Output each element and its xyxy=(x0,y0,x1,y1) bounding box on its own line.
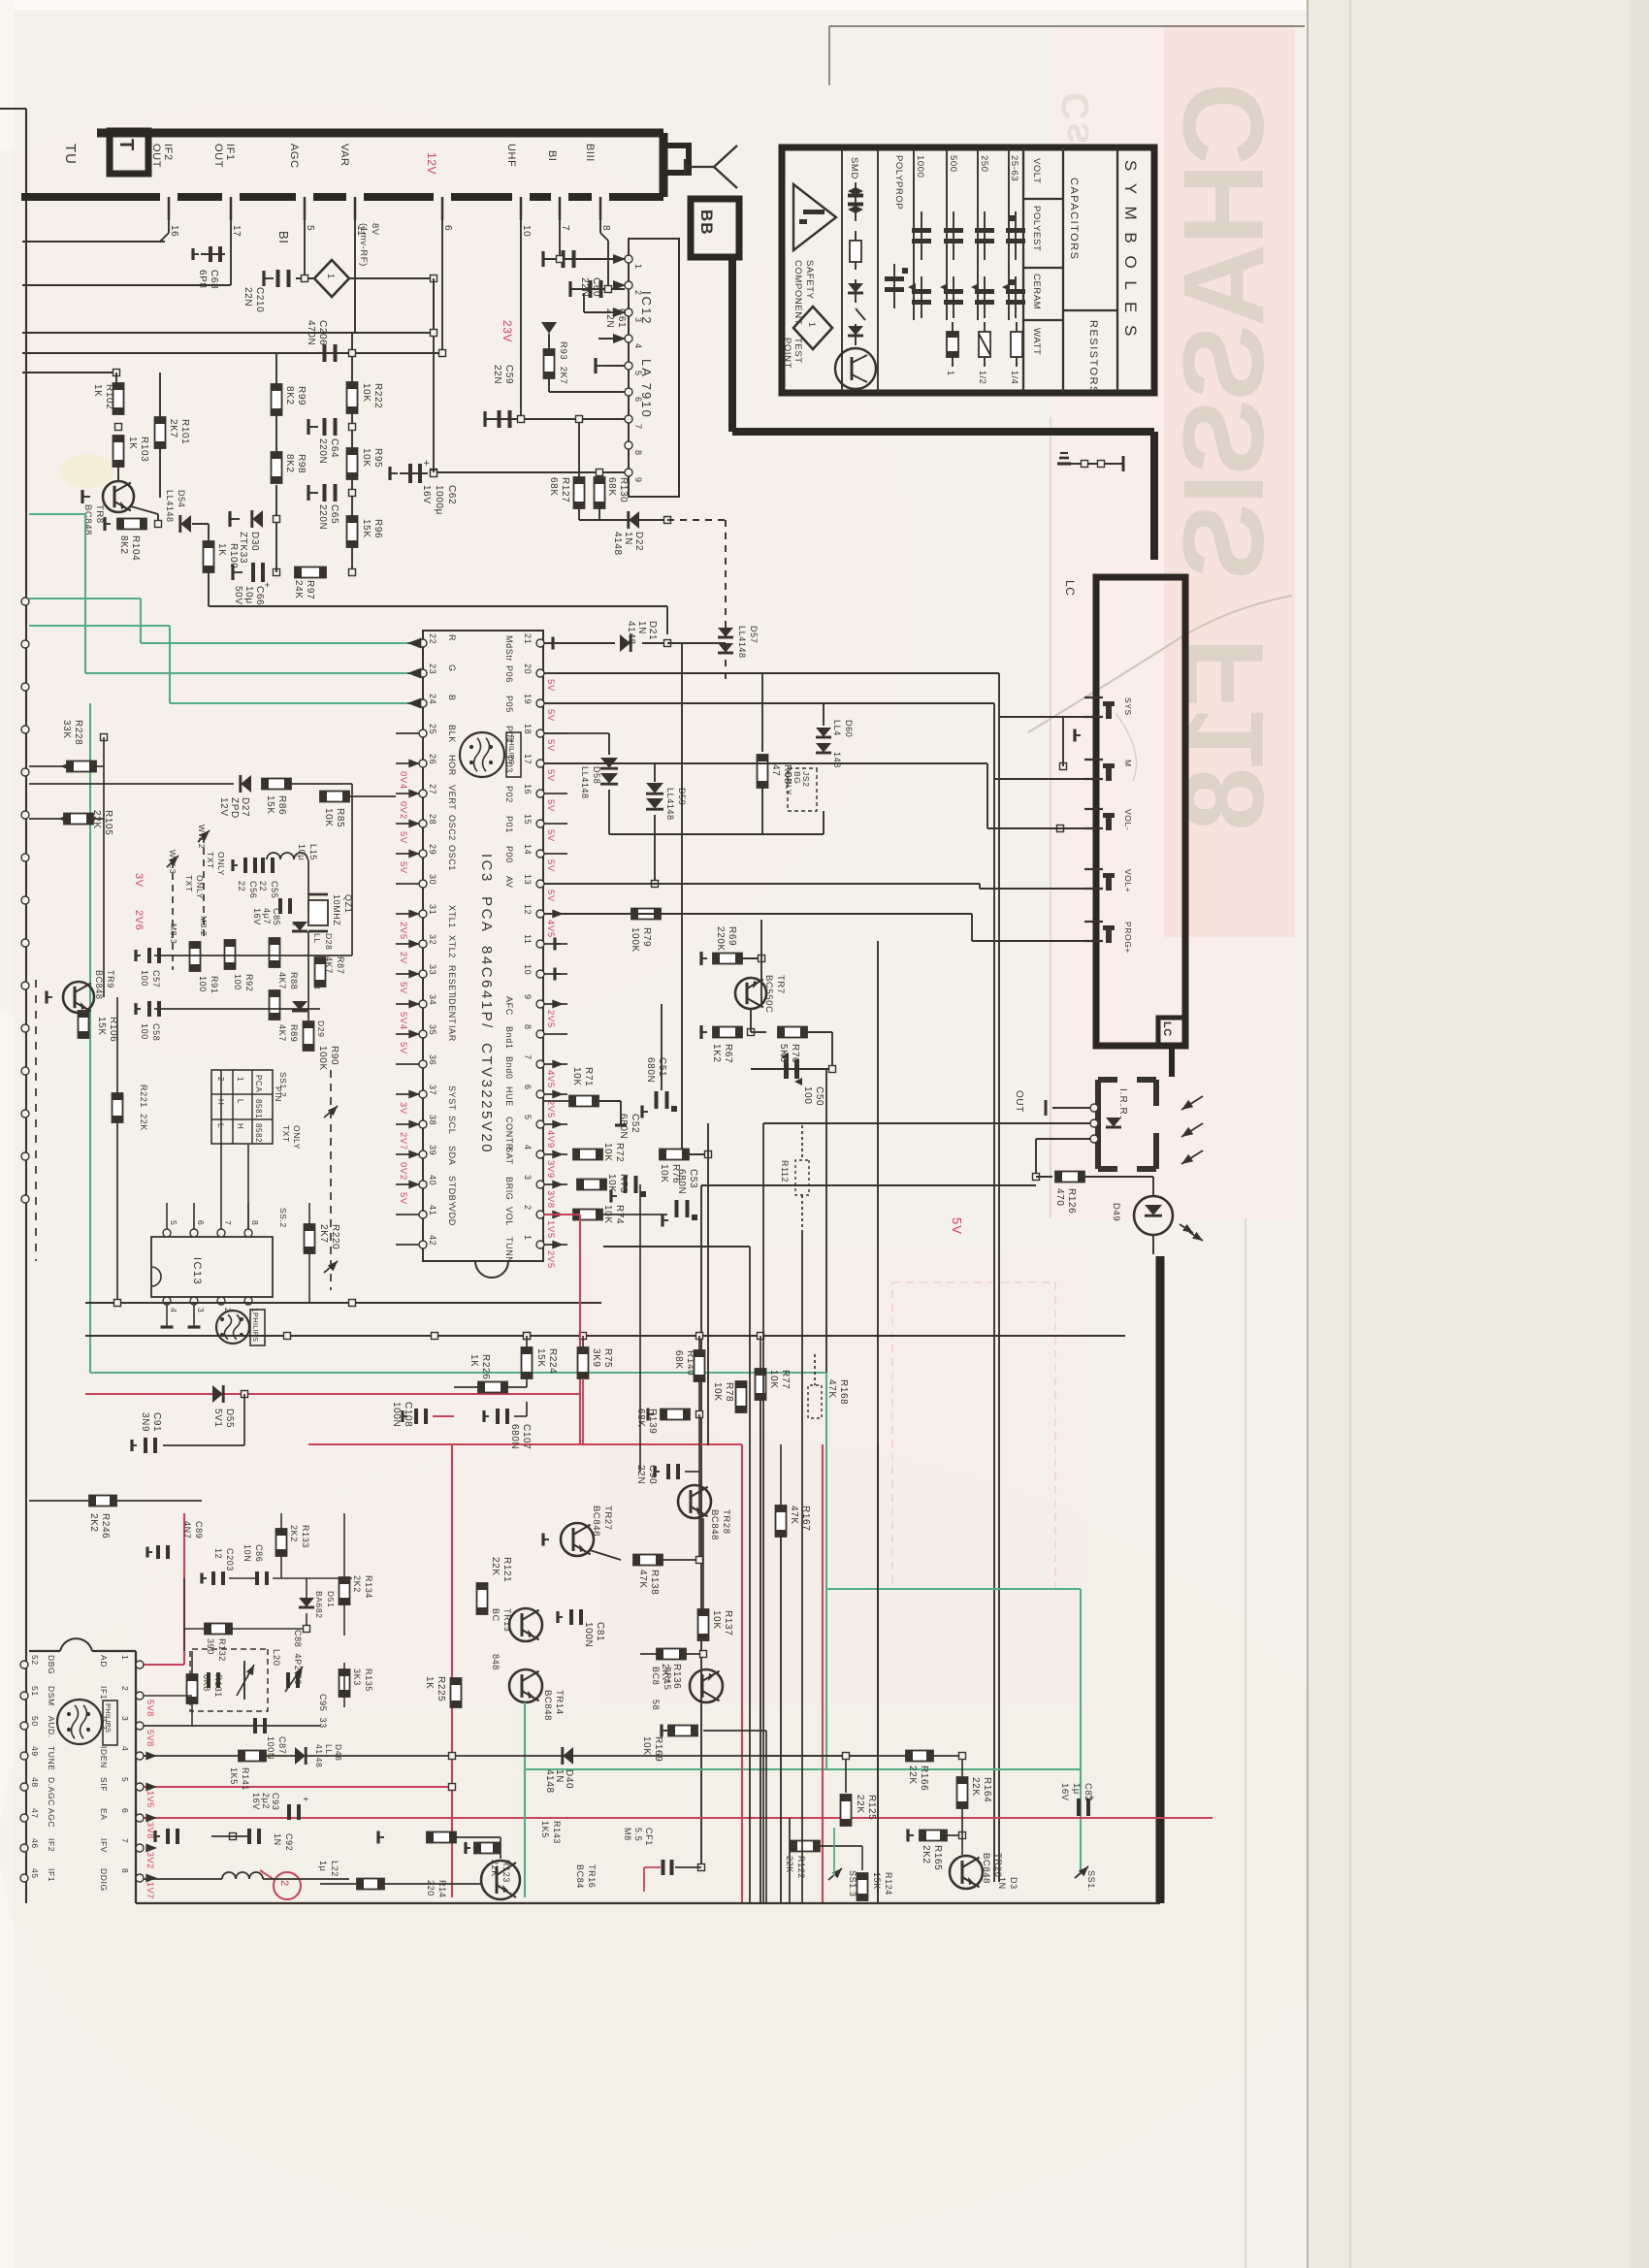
svg-text:P00: P00 xyxy=(504,846,514,863)
legend transistor symbol xyxy=(835,348,876,389)
capacitors C56 C55 xyxy=(243,858,247,873)
svg-text:100N: 100N xyxy=(266,1736,275,1760)
svg-text:3: 3 xyxy=(196,1308,206,1312)
svg-text:14: 14 xyxy=(523,844,533,855)
svg-text:5V: 5V xyxy=(545,799,556,812)
svg-text:BC848: BC848 xyxy=(981,1853,991,1884)
svg-text:C203: C203 xyxy=(225,1548,235,1571)
top frame line xyxy=(829,25,1305,27)
fold lines xyxy=(1307,0,1309,2268)
svg-text:5.5: 5.5 xyxy=(633,1828,643,1841)
svg-text:P05: P05 xyxy=(504,696,514,713)
svg-text:22K: 22K xyxy=(855,1795,865,1814)
svg-text:680N: 680N xyxy=(676,1169,687,1194)
svg-text:TR15: TR15 xyxy=(663,1667,672,1690)
wire pin9 rail xyxy=(434,471,625,473)
svg-text:15K: 15K xyxy=(265,795,275,815)
svg-text:30: 30 xyxy=(428,874,437,885)
svg-text:49: 49 xyxy=(30,1746,40,1757)
svg-text:680N: 680N xyxy=(645,1057,656,1083)
transistor TR14 xyxy=(509,1669,542,1702)
svg-text:T: T xyxy=(115,139,137,150)
capacitor C50 xyxy=(751,1068,832,1070)
svg-text:2V5: 2V5 xyxy=(398,922,408,940)
svg-text:LL4148: LL4148 xyxy=(165,490,175,523)
svg-text:4: 4 xyxy=(120,1746,130,1751)
svg-text:47K: 47K xyxy=(637,1570,648,1589)
svg-text:CONTR: CONTR xyxy=(504,1117,514,1150)
svg-text:5V: 5V xyxy=(545,890,556,902)
svg-text:2K2: 2K2 xyxy=(921,1845,931,1864)
svg-text:1N: 1N xyxy=(623,532,633,545)
svg-text:MdStr: MdStr xyxy=(504,635,514,662)
svg-text:SS.2: SS.2 xyxy=(278,1208,288,1228)
right page strip beyond fold xyxy=(1308,0,1649,2268)
svg-text:C86: C86 xyxy=(254,1544,264,1562)
svg-text:10K: 10K xyxy=(602,1143,613,1162)
svg-text:7: 7 xyxy=(523,1054,533,1060)
thick demarcation line xyxy=(728,256,736,432)
svg-text:B: B xyxy=(447,695,457,701)
svg-text:5V8: 5V8 xyxy=(145,1730,155,1747)
transistor TR13 xyxy=(509,1608,542,1641)
svg-text:BB: BB xyxy=(697,210,716,236)
svg-text:LL: LL xyxy=(312,933,322,944)
resistor R139 xyxy=(661,1409,690,1420)
svg-text:1N: 1N xyxy=(636,621,647,634)
svg-text:R95: R95 xyxy=(372,448,383,468)
svg-text:TR7: TR7 xyxy=(775,975,786,994)
svg-text:C85: C85 xyxy=(272,908,281,925)
svg-text:IF2: IF2 xyxy=(47,1838,56,1852)
svg-text:10: 10 xyxy=(523,964,533,975)
svg-text:TR8: TR8 xyxy=(94,504,105,524)
svg-text:8: 8 xyxy=(633,450,643,456)
svg-text:26: 26 xyxy=(428,754,437,764)
svg-text:4V9: 4V9 xyxy=(545,1130,556,1149)
svg-text:C50: C50 xyxy=(814,1086,824,1106)
svg-text:22K: 22K xyxy=(970,1777,981,1797)
svg-text:R98: R98 xyxy=(296,454,307,473)
resistor R71 xyxy=(569,1096,598,1107)
svg-text:C53: C53 xyxy=(688,1169,698,1188)
svg-text:500: 500 xyxy=(948,155,958,173)
svg-text:1: 1 xyxy=(807,322,817,328)
svg-text:TR9: TR9 xyxy=(106,970,115,988)
svg-text:P06: P06 xyxy=(504,665,514,683)
svg-text:TUNE: TUNE xyxy=(47,1746,56,1771)
svg-text:5V: 5V xyxy=(545,679,556,692)
zener D30 xyxy=(275,519,277,572)
svg-text:12: 12 xyxy=(213,1548,223,1559)
svg-text:22N: 22N xyxy=(492,365,502,384)
svg-text:36: 36 xyxy=(428,1054,437,1065)
svg-text:OUT: OUT xyxy=(212,144,224,168)
svg-text:39: 39 xyxy=(428,1145,437,1155)
IRR middle wire xyxy=(763,1122,1090,1124)
svg-text:47: 47 xyxy=(770,764,781,776)
keyboard buttons xyxy=(1103,701,1115,706)
svg-text:R101: R101 xyxy=(179,419,190,444)
svg-text:VOL-: VOL- xyxy=(1123,809,1133,830)
svg-text:LL4148: LL4148 xyxy=(737,626,747,659)
svg-text:220: 220 xyxy=(426,1880,436,1896)
svg-text:S Y M B O L E S: S Y M B O L E S xyxy=(1121,160,1140,340)
svg-text:AFC: AFC xyxy=(504,996,514,1016)
svg-text:C52: C52 xyxy=(630,1114,640,1133)
svg-text:L20: L20 xyxy=(271,1649,281,1667)
crystal QZ1 xyxy=(308,900,328,925)
green wire to B xyxy=(29,625,170,627)
svg-text:IC13: IC13 xyxy=(191,1257,203,1285)
capacitor C64 xyxy=(349,424,356,431)
svg-text:PIN: PIN xyxy=(274,1086,283,1102)
IRR pins xyxy=(1090,1104,1098,1112)
legend safety triangle xyxy=(793,184,836,250)
svg-text:2K2: 2K2 xyxy=(289,1525,299,1542)
svg-text:(1mv-RF): (1mv-RF) xyxy=(358,223,369,267)
svg-text:22N: 22N xyxy=(604,308,615,328)
svg-text:D55: D55 xyxy=(224,1409,235,1428)
svg-text:1N: 1N xyxy=(273,1833,282,1846)
thick bus line xyxy=(1156,1256,1165,1903)
svg-text:C210: C210 xyxy=(254,287,265,312)
IC3 notch xyxy=(475,1261,508,1278)
svg-text:24K: 24K xyxy=(293,580,304,599)
svg-text:7: 7 xyxy=(120,1838,130,1843)
svg-text:1: 1 xyxy=(120,1655,130,1660)
svg-text:16: 16 xyxy=(523,784,533,794)
resistor R104 xyxy=(105,523,111,525)
svg-text:C95 33: C95 33 xyxy=(318,1694,328,1729)
svg-text:33K: 33K xyxy=(61,720,72,739)
svg-text:5: 5 xyxy=(120,1777,130,1782)
svg-text:1K5: 1K5 xyxy=(229,1767,239,1785)
svg-text:6K8: 6K8 xyxy=(202,1674,211,1692)
svg-text:IF1: IF1 xyxy=(47,1868,56,1882)
svg-text:4148: 4148 xyxy=(544,1769,555,1794)
svg-text:C206: C206 xyxy=(317,320,328,345)
capacitor C51 xyxy=(661,1004,663,1090)
svg-text:R112: R112 xyxy=(780,1160,790,1183)
svg-text:R168: R168 xyxy=(838,1379,849,1405)
svg-text:10K: 10K xyxy=(659,1164,669,1183)
SS1.3 switch xyxy=(828,1868,842,1880)
capacitor C58 xyxy=(147,1001,151,1017)
svg-text:680N: 680N xyxy=(618,1114,629,1139)
tuner notch xyxy=(663,146,689,173)
svg-text:SDA: SDA xyxy=(447,1146,457,1165)
bottom IF IC block xyxy=(135,1651,137,1903)
svg-text:TR27: TR27 xyxy=(602,1506,613,1531)
resistor R14 220 xyxy=(357,1879,384,1890)
svg-text:HOR: HOR xyxy=(447,755,457,776)
svg-text:BC848: BC848 xyxy=(709,1509,720,1540)
svg-text:TU: TU xyxy=(62,144,79,165)
svg-text:3: 3 xyxy=(523,1175,533,1181)
svg-text:Bnd1: Bnd1 xyxy=(504,1026,514,1049)
svg-text:21: 21 xyxy=(523,633,533,644)
diode D59 xyxy=(544,762,655,764)
svg-text:COMPONENT: COMPONENT xyxy=(792,260,803,325)
wires IC13 area xyxy=(220,1070,222,1203)
svg-text:C56: C56 xyxy=(248,881,258,898)
diode D48 xyxy=(295,1747,306,1765)
svg-text:45: 45 xyxy=(30,1868,40,1879)
edge connector circles xyxy=(21,598,29,605)
svg-text:ZPD: ZPD xyxy=(229,797,240,819)
svg-text:5V1: 5V1 xyxy=(212,1409,223,1428)
svg-text:32: 32 xyxy=(428,934,437,945)
svg-text:R14: R14 xyxy=(437,1880,447,1897)
svg-text:12V: 12V xyxy=(218,797,229,817)
tuner pin stubs and numbers xyxy=(168,197,171,220)
svg-text:R165: R165 xyxy=(932,1845,943,1870)
wires smd row xyxy=(154,955,352,956)
svg-text:22N: 22N xyxy=(242,287,253,307)
svg-text:I.R.R.: I.R.R. xyxy=(1117,1088,1128,1119)
svg-text:R143: R143 xyxy=(552,1821,562,1844)
svg-text:L22: L22 xyxy=(330,1861,339,1877)
svg-text:C81: C81 xyxy=(595,1622,605,1641)
svg-text:CHASSIS F18: CHASSIS F18 xyxy=(1160,82,1288,828)
svg-text:1K2: 1K2 xyxy=(711,1044,722,1063)
svg-text:R97: R97 xyxy=(305,580,315,599)
svg-text:9: 9 xyxy=(633,477,643,483)
svg-text:40: 40 xyxy=(428,1175,437,1185)
svg-text:D60: D60 xyxy=(844,720,854,737)
svg-text:SS1.: SS1. xyxy=(1086,1870,1096,1892)
svg-text:8K2: 8K2 xyxy=(118,535,129,555)
green wire TR14 down xyxy=(524,1702,526,1897)
Philips logo bottom xyxy=(57,1700,102,1744)
transistor TR16 xyxy=(481,1861,520,1899)
svg-text:220N: 220N xyxy=(317,438,328,464)
BB box xyxy=(691,199,739,257)
svg-text:BLK: BLK xyxy=(447,725,457,743)
svg-text:10: 10 xyxy=(521,225,532,237)
tuner pin11 wire xyxy=(354,220,356,333)
svg-text:5V: 5V xyxy=(545,769,556,782)
svg-text:TR14: TR14 xyxy=(554,1690,565,1715)
svg-text:R100: R100 xyxy=(228,543,239,568)
IRR photodiode xyxy=(1106,1118,1121,1127)
svg-text:C58: C58 xyxy=(151,1023,161,1041)
IRR supply wire xyxy=(1036,1138,1090,1140)
svg-text:35: 35 xyxy=(428,1024,437,1035)
transistor TR9 xyxy=(63,982,94,1013)
resistor R101 xyxy=(155,417,166,448)
svg-text:VOLT: VOLT xyxy=(1031,158,1042,184)
zener D27 xyxy=(241,775,251,793)
svg-text:68K: 68K xyxy=(606,477,617,497)
legend capacitor symbols xyxy=(1015,211,1017,260)
svg-text:R121: R121 xyxy=(501,1557,512,1582)
svg-text:6: 6 xyxy=(633,397,643,403)
ground chain near legend xyxy=(1060,463,1123,465)
resistor R132 xyxy=(205,1624,232,1635)
svg-text:20: 20 xyxy=(523,664,533,674)
svg-text:42: 42 xyxy=(428,1235,437,1246)
svg-text:ONLY: ONLY xyxy=(292,1125,302,1150)
svg-text:CAPACITORS: CAPACITORS xyxy=(1068,178,1080,261)
keyboard wires xyxy=(999,716,1084,718)
IC12 LA7910 box xyxy=(629,239,679,497)
svg-text:L15: L15 xyxy=(308,844,318,860)
diode D55 xyxy=(212,1385,223,1403)
svg-text:2V5: 2V5 xyxy=(545,1100,556,1118)
svg-text:34: 34 xyxy=(428,994,437,1005)
svg-text:27: 27 xyxy=(428,784,437,794)
IRR box xyxy=(1098,1077,1117,1083)
svg-text:0V2: 0V2 xyxy=(398,1162,408,1181)
resistor R72 xyxy=(573,1150,602,1160)
svg-text:6: 6 xyxy=(523,1085,533,1090)
transistor TR27 xyxy=(561,1523,594,1556)
svg-text:47K: 47K xyxy=(789,1506,799,1525)
resistor R169 xyxy=(668,1726,697,1736)
svg-text:DSM: DSM xyxy=(47,1686,56,1706)
svg-text:R169: R169 xyxy=(653,1736,663,1762)
capacitor C53 xyxy=(675,1200,679,1217)
red vertical x466 xyxy=(451,1444,453,1897)
svg-text:POINT: POINT xyxy=(782,338,792,369)
resistor R75 xyxy=(578,1347,589,1378)
svg-text:SS1.3: SS1.3 xyxy=(848,1870,857,1897)
svg-text:SMD: SMD xyxy=(849,157,859,179)
red vertical x190 pin1 xyxy=(183,1513,185,1665)
svg-text:4: 4 xyxy=(169,1308,178,1312)
resistor R67 xyxy=(701,1031,707,1033)
transistor TR20 xyxy=(950,1856,983,1889)
svg-text:48: 48 xyxy=(30,1777,40,1788)
svg-text:8: 8 xyxy=(523,1024,533,1030)
svg-text:37: 37 xyxy=(428,1085,437,1095)
svg-text:8K2: 8K2 xyxy=(284,454,295,473)
svg-text:P04: P04 xyxy=(504,726,514,743)
svg-text:D30: D30 xyxy=(249,532,260,551)
capacitor C87 xyxy=(144,1725,320,1727)
svg-text:D57: D57 xyxy=(749,626,759,643)
diode D29 xyxy=(292,1001,307,1011)
IC3 left pins xyxy=(419,639,427,647)
resistor R165 xyxy=(920,1831,947,1841)
svg-text:R123: R123 xyxy=(501,1860,511,1883)
svg-text:15K: 15K xyxy=(361,519,372,538)
svg-text:Bnd0: Bnd0 xyxy=(504,1056,514,1079)
svg-text:C62: C62 xyxy=(446,485,457,504)
svg-text:C107: C107 xyxy=(521,1424,532,1449)
red rail y1489 xyxy=(308,1443,742,1445)
resistor R221 xyxy=(113,1093,123,1122)
svg-text:5V4: 5V4 xyxy=(398,1012,408,1030)
svg-text:R246: R246 xyxy=(100,1513,111,1539)
svg-text:24: 24 xyxy=(428,694,437,704)
svg-text:29: 29 xyxy=(428,844,437,855)
LED D49 xyxy=(1152,1177,1154,1196)
svg-text:D49: D49 xyxy=(1111,1203,1121,1221)
tuner pin16 wire xyxy=(168,220,170,233)
svg-text:2: 2 xyxy=(120,1686,130,1691)
svg-text:7: 7 xyxy=(223,1220,233,1225)
svg-text:TXT: TXT xyxy=(184,875,194,892)
svg-text:TR13: TR13 xyxy=(502,1608,512,1632)
transistor TR15 xyxy=(690,1669,723,1702)
svg-text:R133: R133 xyxy=(301,1525,310,1548)
green wire to R xyxy=(29,598,141,599)
svg-text:R126: R126 xyxy=(1066,1188,1077,1214)
svg-text:5V: 5V xyxy=(398,861,408,874)
svg-text:BC848: BC848 xyxy=(591,1506,601,1537)
svg-text:R89: R89 xyxy=(289,1024,299,1042)
red wire pin2 down xyxy=(544,1214,580,1215)
wire pin4 xyxy=(598,338,625,340)
svg-text:46: 46 xyxy=(30,1838,40,1849)
svg-text:10N: 10N xyxy=(242,1544,252,1562)
svg-text:BC: BC xyxy=(491,1608,501,1622)
legend SYMBOLES table xyxy=(782,147,1154,393)
svg-text:5: 5 xyxy=(633,371,643,376)
svg-text:PHILIPS: PHILIPS xyxy=(104,1703,113,1733)
transistor TR28 xyxy=(678,1485,711,1518)
svg-text:R220: R220 xyxy=(330,1224,340,1249)
Philips logo IC3 xyxy=(460,732,504,777)
svg-text:4: 4 xyxy=(633,343,643,349)
safety diamond 8V xyxy=(314,260,349,297)
svg-text:R131: R131 xyxy=(213,1674,223,1698)
svg-text:52: 52 xyxy=(30,1655,40,1666)
svg-text:LC: LC xyxy=(1063,580,1077,597)
svg-text:15: 15 xyxy=(523,814,533,825)
svg-text:ONLY: ONLY xyxy=(784,771,793,795)
svg-text:4V5: 4V5 xyxy=(545,920,556,938)
tuner pin17 wire xyxy=(230,220,232,285)
svg-text:R90: R90 xyxy=(329,1046,339,1065)
svg-text:3V2: 3V2 xyxy=(145,1852,155,1869)
IC3 pin11 pin10 grounds xyxy=(555,943,561,945)
svg-text:TR28: TR28 xyxy=(721,1509,731,1535)
Philips logo IC13 xyxy=(216,1311,249,1344)
svg-text:SAT: SAT xyxy=(504,1147,514,1165)
svg-text:VOL+: VOL+ xyxy=(1123,869,1133,892)
svg-text:IAR: IAR xyxy=(447,1025,457,1042)
diode D51 xyxy=(299,1598,314,1607)
capacitor C68 xyxy=(201,253,225,255)
svg-text:1V5: 1V5 xyxy=(145,1791,155,1808)
svg-text:C61: C61 xyxy=(616,308,627,328)
capacitor C66 xyxy=(251,563,255,582)
svg-text:6: 6 xyxy=(442,225,453,231)
svg-text:8: 8 xyxy=(250,1220,260,1225)
resistor R141 xyxy=(239,1751,266,1762)
resistor R122 xyxy=(791,1841,820,1852)
svg-text:AV: AV xyxy=(504,876,514,889)
resistor R131 xyxy=(187,1674,198,1703)
svg-text:R132: R132 xyxy=(217,1638,227,1662)
IC3 right pins xyxy=(536,639,544,647)
green wire to G xyxy=(29,513,85,515)
svg-text:25: 25 xyxy=(428,724,437,734)
svg-text:5V: 5V xyxy=(545,829,556,842)
svg-text:UHF: UHF xyxy=(505,144,517,167)
svg-text:LL4148: LL4148 xyxy=(665,788,675,821)
svg-text:6: 6 xyxy=(120,1808,130,1813)
svg-text:C87: C87 xyxy=(277,1736,287,1754)
wire bus upper left xyxy=(22,241,165,243)
svg-text:IF2: IF2 xyxy=(162,144,174,161)
svg-text:22: 22 xyxy=(237,881,246,891)
svg-text:M8.3: M8.3 xyxy=(169,923,178,944)
